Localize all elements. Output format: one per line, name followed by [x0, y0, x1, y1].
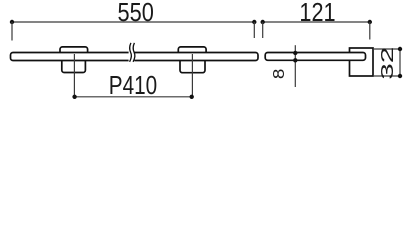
dim 8 bottom dot	[293, 58, 297, 62]
dimension 8 vertical line	[294, 45, 296, 87]
extension line at x=262.7	[262, 22, 264, 38]
break curve right	[133, 43, 135, 62]
dim 32 bottom dot	[398, 74, 402, 78]
svg-text:P410: P410	[109, 70, 157, 100]
rail (front view)	[11, 53, 259, 61]
svg-text:8: 8	[271, 69, 288, 80]
bracket 2 cap	[178, 47, 206, 55]
extension line at x=369.8	[369, 22, 371, 40]
center line bracket 2	[191, 54, 193, 97]
dimension 121 right dot	[368, 20, 372, 24]
svg-text:550: 550	[118, 0, 154, 27]
dimension 32 vertical line	[399, 49, 401, 76]
wall plate (side view square)	[350, 48, 374, 76]
bracket 2 body	[180, 58, 205, 73]
svg-text:121: 121	[299, 0, 335, 27]
dim 32 top extension	[373, 48, 402, 50]
dimension 550 left dot	[10, 20, 14, 24]
svg-text:32: 32	[377, 47, 397, 80]
dimension 121 line	[263, 21, 370, 23]
break white band	[129, 50, 135, 63]
P410 right dot	[190, 95, 194, 99]
dim 32 bottom extension	[373, 75, 402, 77]
bar (side view)	[265, 53, 365, 61]
bracket 1 body	[62, 58, 86, 73]
extension line left (x=12)	[11, 22, 13, 41]
dimension 550 right dot	[252, 20, 256, 24]
dimension 550 line	[12, 21, 254, 23]
dim 32 top dot	[398, 47, 402, 51]
P410 left dot	[72, 95, 76, 99]
center line bracket 1	[73, 54, 75, 97]
dimension 121 left dot	[261, 20, 265, 24]
dimension P410 line	[75, 96, 192, 98]
extension line at x=254.3	[253, 22, 255, 38]
break curve left	[130, 43, 132, 62]
dim 8 top dot	[293, 51, 297, 55]
bracket 1 cap	[60, 47, 88, 55]
